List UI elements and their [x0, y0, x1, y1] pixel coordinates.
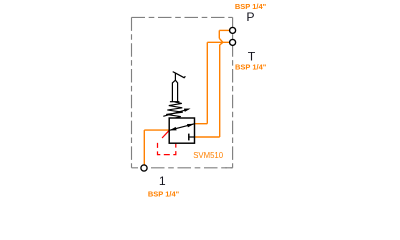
valve flow arrowhead left	[169, 127, 176, 130]
relief valve SVM510 body	[169, 118, 194, 143]
enclosure boundary top edge (gray dashed)	[132, 16, 233, 18]
svg-text:1: 1	[159, 174, 166, 188]
wire: junction jog to drain vertical	[220, 42, 223, 45]
wire: valve drain horizontal	[195, 136, 220, 138]
enclosure corner arm bottom-right horizontal	[225, 167, 232, 169]
actuator base bar	[170, 101, 180, 103]
valve drain port symbol (blocked T)	[188, 134, 190, 141]
enclosure boundary left edge (gray dashed)	[131, 17, 133, 167]
wire: valve inlet horizontal	[144, 129, 169, 131]
enclosure boundary bottom edge (gray dashed)	[132, 167, 233, 169]
valve flow arrowhead right	[187, 124, 194, 128]
wire: valve outlet vertical	[206, 42, 208, 123]
svg-text:T: T	[248, 50, 256, 64]
svg-text:SVM510: SVM510	[193, 151, 224, 160]
wire: port 1 vertical	[143, 130, 145, 165]
pilot line loop (red dashed)	[158, 143, 176, 155]
wire: valve drain vertical	[219, 45, 221, 137]
port 1 circle	[141, 165, 147, 171]
spring (adjustable)	[166, 102, 183, 118]
wire: P diagonal merge into T line junction	[219, 38, 223, 42]
spring adjustability arrow	[163, 109, 188, 116]
actuator stem	[172, 80, 177, 101]
svg-text:BSP 1/4": BSP 1/4"	[235, 63, 267, 72]
wire: P vertical drop	[218, 30, 220, 38]
svg-text:BSP 1/4": BSP 1/4"	[148, 189, 180, 198]
port T circle	[230, 39, 236, 45]
wire: valve outlet horizontal	[195, 123, 208, 125]
svg-text:P: P	[246, 10, 254, 24]
enclosure boundary right edge (gray dashed)	[232, 17, 234, 167]
actuator lever	[173, 72, 186, 78]
actuator pin	[174, 73, 176, 80]
valve flow arrow line	[170, 124, 194, 130]
pilot line diagonal (red dashed)	[158, 131, 169, 143]
wire: P lead horizontal	[219, 29, 230, 31]
port P circle	[230, 27, 236, 33]
wire: T horizontal to port T	[207, 41, 230, 43]
